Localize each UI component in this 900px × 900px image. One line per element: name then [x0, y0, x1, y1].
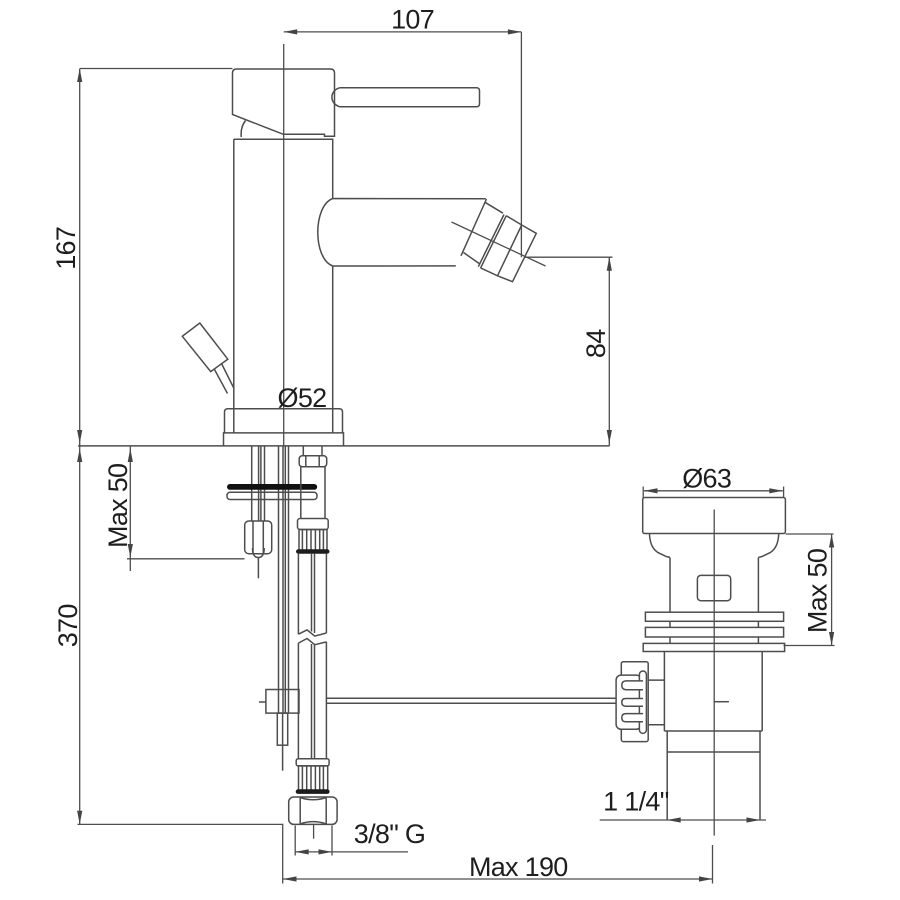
supply hose top hex nut [299, 456, 327, 467]
hose long upper section [298, 553, 326, 634]
drain barrel upper [670, 558, 758, 613]
spout end cut line [461, 199, 487, 256]
dimension 1 1/4 inch line [600, 819, 766, 821]
hose lower threaded section [299, 766, 328, 792]
drain tailpipe [667, 752, 760, 820]
hose braid section [299, 530, 327, 552]
dimension 370 arrows [77, 449, 82, 463]
dimension 1 1/4 inch arrows [667, 817, 681, 822]
dimension Max 190 right extension line [712, 845, 714, 884]
mounting nut facets [253, 521, 263, 554]
dimension 167 line [79, 69, 81, 446]
drain knob front plate [616, 675, 641, 729]
dimension 107 arrows [284, 29, 298, 34]
aerator nut section [481, 216, 522, 276]
hose nut facets [306, 456, 319, 467]
svg-text:Ø63: Ø63 [682, 463, 731, 493]
dimension Max 50 left line [129, 446, 131, 571]
hose end nut chamfer arcs [300, 798, 326, 824]
horizontal linkage rod [327, 698, 617, 703]
base flange inner edges [234, 409, 333, 433]
dimension Max 50 right line [831, 534, 833, 646]
faucet vertical axis line [283, 44, 285, 446]
dimension 84 arrows [607, 257, 612, 271]
dimension Max 190 left extension line [282, 824, 284, 884]
dimension Max 50 left arrows [128, 449, 133, 463]
svg-text:Max 50: Max 50 [803, 549, 833, 633]
drain knob back plate [621, 662, 648, 742]
pop-up rod upper [259, 446, 261, 521]
mounting nut tail [253, 548, 265, 558]
dimension 84 line [608, 257, 610, 446]
drain knob right capsule [639, 671, 646, 733]
rubber gasket dark bar [228, 485, 317, 490]
dimension diameter 63 line [644, 490, 783, 492]
svg-text:Max 50: Max 50 [103, 464, 133, 548]
hose braid hatch [302, 530, 323, 552]
drain barrel gap edges 1 [670, 621, 758, 627]
cap tilt arc [241, 121, 245, 138]
svg-text:84: 84 [581, 329, 611, 358]
dimension 3/8 G arrows [295, 849, 309, 854]
hose thread dark band [296, 790, 329, 794]
dimension diameter 63 arrows [644, 488, 658, 493]
dimension 370 line [79, 446, 81, 824]
hose end nut facets [300, 797, 326, 824]
drain knob groove 1 [622, 681, 643, 690]
rod tip below guide [282, 713, 284, 771]
faucet body [234, 139, 333, 409]
aerator axis line [452, 222, 546, 266]
dimension Max 50 right arrows [829, 534, 834, 548]
drain ball rod tick [714, 701, 729, 703]
mounting nut [245, 521, 272, 554]
dimension 3/8 G leader [332, 851, 408, 853]
dimension 167 top extension line [80, 68, 233, 70]
dimension Max 50 left bottom extension line [127, 558, 245, 560]
hose long lower section [298, 642, 326, 759]
washer plate [227, 492, 317, 499]
rod guide below clamp [277, 713, 287, 745]
aerator tip section [498, 225, 537, 282]
svg-text:Max 190: Max 190 [469, 852, 568, 882]
base lower block [224, 433, 344, 446]
aerator step double line [478, 215, 506, 268]
extension line right of 107 down to nozzle tip [520, 32, 522, 257]
drain square hole [697, 575, 730, 600]
clamp left tick [259, 701, 266, 703]
drain barrel lower [664, 652, 762, 732]
supply hose top stub [303, 446, 322, 456]
drain knob groove 3 [622, 714, 643, 722]
drain locknut band 1 [645, 612, 783, 621]
drain washer band 3 [643, 643, 784, 651]
dimension Max 190 arrows [283, 876, 297, 881]
drain body joint [667, 731, 760, 752]
drain locknut band 2 [645, 627, 783, 637]
side knob stem [215, 364, 235, 394]
stud tip below nut [257, 558, 259, 579]
drain vertical axis [713, 510, 715, 836]
svg-text:3/8" G: 3/8" G [354, 819, 425, 849]
diameter 63 extension lines [643, 487, 783, 498]
hose collar [298, 519, 329, 530]
svg-text:167: 167 [51, 227, 81, 270]
hose axis below nut [313, 824, 315, 838]
faucet cap outline [233, 69, 335, 136]
hose braid dark band [297, 550, 330, 553]
dimension 370 bottom extension line [78, 823, 283, 825]
svg-text:1 1/4": 1 1/4" [603, 787, 669, 817]
lift rod tube lines [279, 446, 289, 713]
hose lower collar [296, 759, 329, 766]
threaded stud lines [252, 446, 265, 521]
hose end nut [289, 797, 337, 824]
aerator neck section [464, 202, 504, 263]
drain knob groove 2 [622, 699, 643, 707]
hose break symbol [298, 630, 326, 645]
hose upper body [301, 467, 325, 519]
dimension 167 arrows [77, 69, 82, 83]
spout outline [318, 199, 486, 267]
countertop line [78, 445, 610, 447]
drain neck [649, 534, 778, 558]
drain flange [643, 498, 786, 534]
drain knob connector [648, 680, 664, 725]
hose thread hatch [302, 766, 323, 792]
dimension Max 50 right top extension [786, 533, 834, 535]
pop-up rod clamp [266, 690, 299, 714]
svg-text:370: 370 [53, 604, 83, 647]
dimension Max 50 right bottom extension [784, 645, 835, 647]
base upper flange [225, 409, 343, 433]
dimension 3/8 G line [295, 851, 332, 853]
dimension 107 line [284, 31, 522, 33]
dimension Max 190 line [283, 878, 713, 880]
handle lever [332, 88, 480, 107]
dimension 84 top extension line from nozzle [525, 256, 613, 258]
drain barrel gap edges 2 [670, 637, 758, 643]
dimension 3/8 G extension lines [295, 826, 332, 856]
svg-text:107: 107 [391, 4, 434, 34]
side knob [182, 323, 228, 372]
